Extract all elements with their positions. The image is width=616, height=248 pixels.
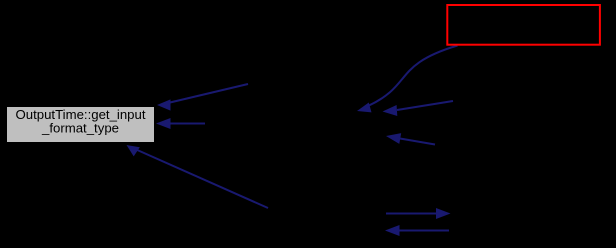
svg-text:_format_type: _format_type xyxy=(41,121,119,136)
